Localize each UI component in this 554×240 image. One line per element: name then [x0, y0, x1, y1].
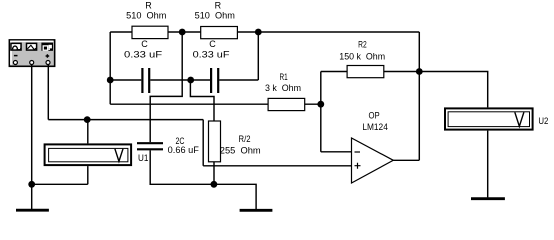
svg-text:U2: U2 — [538, 116, 548, 126]
junction input rail / C1 — [107, 77, 114, 84]
wire R2 left lead — [321, 71, 347, 73]
ground 3 — [471, 197, 505, 200]
op-amp U3 (OP LM124) — [352, 138, 394, 183]
wire U1 top lead — [87, 120, 89, 144]
svg-text:R: R — [215, 0, 222, 10]
svg-text:C: C — [141, 39, 148, 49]
svg-text:510 Ohm: 510 Ohm — [195, 11, 235, 21]
svg-text:C: C — [209, 39, 216, 49]
svg-text:3 k Ohm: 3 k Ohm — [265, 83, 301, 93]
wire input rail — [109, 32, 111, 104]
junction inverting node — [317, 101, 324, 108]
voltmeter U2 — [445, 108, 533, 129]
wire rail to R1 — [110, 103, 268, 105]
function generator — [9, 40, 54, 66]
wire R/2 bottom — [213, 162, 215, 185]
svg-text:510 Ohm: 510 Ohm — [126, 11, 166, 21]
wire between resistors — [168, 31, 201, 33]
wire op-amp output — [393, 159, 419, 161]
svg-text:255 Ohm: 255 Ohm — [220, 145, 261, 155]
junction output node — [416, 68, 423, 75]
svg-text:150 k Ohm: 150 k Ohm — [339, 51, 385, 61]
wire C2 right lead — [219, 79, 258, 81]
svg-text:R/2: R/2 — [239, 134, 251, 144]
wire C1-C2 — [150, 79, 210, 81]
svg-text:0.66 uF: 0.66 uF — [168, 145, 200, 155]
ground 1 — [16, 209, 49, 212]
wire minus input — [321, 151, 352, 153]
wire signal horizontal — [48, 119, 203, 121]
wire gen plus down — [47, 65, 49, 120]
svg-text:U1: U1 — [138, 153, 148, 163]
wire output to U2 — [419, 72, 488, 108]
wire U1 return — [32, 183, 88, 185]
junction ground node — [28, 181, 35, 188]
junction U1 tap — [84, 116, 91, 123]
wire C-C midpoint to R/2 — [190, 80, 214, 121]
junction C-C midpoint — [187, 77, 194, 84]
wire R2 right lead — [384, 71, 420, 73]
junction twin-T output — [255, 29, 262, 36]
wire top right — [237, 31, 419, 33]
wire output rail down — [418, 32, 420, 160]
capacitor 2C (0.66 uF) — [137, 143, 163, 149]
wire C1 left lead — [110, 79, 141, 81]
wire inverting node vertical — [320, 72, 322, 152]
wire signal down to plus input — [202, 120, 204, 166]
resistor R (510 Ohm) first — [132, 26, 168, 38]
junction bottom ground node — [211, 181, 218, 188]
voltmeter U1 — [45, 144, 132, 165]
resistor R (510 Ohm) second — [201, 27, 238, 39]
wire U2 to ground 3 — [487, 131, 489, 198]
svg-text:R: R — [145, 0, 152, 10]
resistor R1 (3 k Ohm) — [268, 98, 305, 110]
wire C2 up to top — [257, 32, 259, 80]
svg-text:R1: R1 — [280, 72, 288, 82]
wire to ground 2 — [214, 184, 256, 209]
wire to ground 1 — [31, 184, 33, 209]
wire R1 right lead — [305, 103, 321, 105]
resistor R2 (150 k Ohm) — [347, 66, 384, 78]
wire gen common down — [31, 65, 33, 185]
svg-text:R2: R2 — [358, 40, 367, 50]
wire U1 bottom lead — [87, 166, 89, 184]
svg-text:LM124: LM124 — [362, 122, 388, 132]
resistor R/2 (255 Ohm) — [209, 121, 221, 162]
wire plus input — [203, 165, 351, 167]
ground 2 — [240, 209, 273, 212]
wire 2C bottom to ground node — [150, 150, 214, 184]
junction R-R midpoint — [179, 29, 186, 36]
svg-text:OP: OP — [369, 110, 380, 120]
svg-text:0.33 uF: 0.33 uF — [124, 50, 163, 60]
capacitor C (0.33 uF) second — [211, 68, 218, 93]
capacitor C (0.33 uF) first — [142, 68, 149, 93]
svg-text:0.33 uF: 0.33 uF — [193, 50, 230, 60]
wire R-R midpoint to 2C — [150, 32, 182, 142]
wire top lead left — [110, 31, 132, 33]
